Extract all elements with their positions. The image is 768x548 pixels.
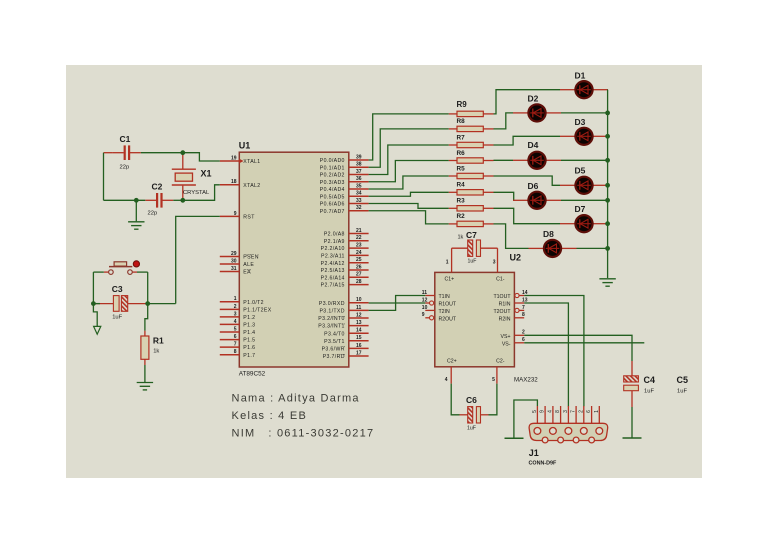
svg-text:C1+: C1+ [445, 276, 455, 282]
wire D8 to bus [577, 247, 608, 249]
svg-text:XTAL1: XTAL1 [243, 159, 260, 165]
capacitor C7 [452, 230, 498, 264]
svg-text:P3.2/INT0: P3.2/INT0 [318, 316, 345, 322]
svg-text:18: 18 [231, 179, 237, 185]
svg-text:P0.1/AD1: P0.1/AD1 [320, 165, 345, 171]
U1 pin 12 (P3.2/tspan tex) [318, 312, 368, 322]
U2 pin 5 [496, 367, 498, 384]
svg-text:P2.3/A11: P2.3/A11 [321, 254, 345, 260]
svg-text:1uF: 1uF [677, 389, 687, 395]
wire C3 left [93, 303, 100, 305]
svg-text:6: 6 [586, 410, 592, 413]
svg-text:22: 22 [356, 235, 362, 241]
svg-text:1: 1 [594, 410, 600, 413]
svg-text:P2.7/A15: P2.7/A15 [321, 283, 345, 289]
svg-text:P0.6/AD6: P0.6/AD6 [320, 202, 345, 208]
capacitor C2 [145, 182, 173, 217]
svg-text:P1.7: P1.7 [243, 353, 255, 359]
U2 pin 14 [515, 290, 528, 298]
J1 pin 6 [586, 406, 592, 423]
U1 pin 3 (P1.2) [220, 311, 256, 321]
svg-text:P3.7/RD: P3.7/RD [323, 354, 345, 360]
wire button left drop [92, 272, 94, 304]
svg-text:P0.3/AD3: P0.3/AD3 [320, 180, 345, 186]
wire C4 top lead [631, 361, 633, 376]
node C2 ground junction [134, 198, 139, 203]
U1 pin 5 (P1.4) [220, 326, 256, 336]
J1 pin 7 [571, 406, 577, 423]
svg-text:P0.5/AD5: P0.5/AD5 [320, 194, 345, 200]
resistor R6 [449, 150, 494, 163]
wire to R1 [145, 304, 148, 331]
svg-text:3: 3 [563, 410, 569, 413]
svg-text:P1.0/T2: P1.0/T2 [243, 300, 264, 306]
svg-text:10: 10 [422, 305, 428, 311]
svg-text:28: 28 [356, 279, 362, 285]
wire C1 left lead ext [104, 152, 113, 154]
U2 pin 12 [422, 297, 434, 305]
svg-text:R1OUT: R1OUT [439, 302, 457, 308]
U1 pin 23 (P2.2/A10) [321, 243, 369, 253]
U1 pin 13 (P3.3/tspan tex) [318, 320, 368, 330]
svg-text:MAX232: MAX232 [514, 377, 538, 384]
node RST junction [145, 301, 150, 306]
svg-text:39: 39 [356, 154, 362, 160]
resistor R9 [449, 100, 494, 117]
U1 pin 18 (XTAL2) [220, 179, 261, 189]
node bus D6 [605, 198, 610, 203]
U1 pin 33 (P0.6/AD6) [320, 198, 369, 208]
U1 pin 2 (P1.1/T2EX) [220, 304, 272, 314]
resistor R3 [449, 198, 494, 211]
U1 pin 19 (XTAL1) [220, 155, 261, 165]
student name text block [232, 393, 375, 440]
svg-text:T2OUT: T2OUT [493, 309, 511, 315]
wire VS+ to C4 [524, 335, 632, 361]
svg-text:T2IN: T2IN [439, 309, 450, 315]
J1 pin 2 [578, 406, 584, 423]
U2 pin 8 [514, 312, 525, 318]
svg-text:34: 34 [356, 191, 362, 197]
svg-text:31: 31 [231, 266, 237, 272]
svg-text:P2.0/A8: P2.0/A8 [324, 232, 345, 238]
terminal arrow (reset net) [94, 326, 101, 334]
wire VS- [524, 342, 644, 344]
wire D3 to bus [607, 135, 609, 137]
svg-text:P2.5/A13: P2.5/A13 [321, 268, 345, 274]
wire R2 to D8 [494, 224, 529, 249]
J1 pin 9 [540, 406, 546, 423]
IC U1 body (AT89C52 microcontroller) [239, 152, 348, 367]
svg-text:AT89C52: AT89C52 [239, 371, 266, 378]
U2 pin 13 [514, 297, 527, 303]
wire D6 to bus [561, 199, 608, 201]
LED D7 [560, 204, 608, 232]
svg-text:21: 21 [356, 228, 362, 234]
svg-text:15: 15 [356, 335, 362, 341]
svg-text:35: 35 [356, 183, 362, 189]
svg-text:R6: R6 [457, 150, 466, 157]
wire C1 to XTAL1 node [141, 152, 183, 154]
svg-text:C2-: C2- [496, 359, 505, 365]
U2 pin 10 [422, 305, 435, 311]
wire D4 to bus [561, 159, 608, 161]
U1 pin 31 (tspan text-dec) [220, 266, 251, 276]
wire D2 to bus [561, 112, 608, 114]
svg-text:C7: C7 [466, 230, 477, 240]
U1 pin 37 (P0.2/AD2) [320, 169, 369, 179]
LED D2 [513, 94, 561, 122]
wire R6 to D4 [494, 159, 514, 161]
svg-text:J1: J1 [529, 448, 539, 458]
svg-text:P3.3/INT1: P3.3/INT1 [318, 324, 345, 330]
wire to C2 [104, 199, 146, 201]
svg-text:VS+: VS+ [501, 334, 511, 340]
svg-text:R9: R9 [457, 100, 468, 109]
svg-text:D7: D7 [575, 204, 586, 214]
svg-text:1uF: 1uF [467, 426, 476, 432]
svg-text:ALE: ALE [243, 262, 254, 268]
node C3 left junction [91, 301, 96, 306]
wire to XTAL2 pin [183, 185, 220, 201]
svg-text:29: 29 [231, 251, 237, 257]
wire D5 to bus [607, 184, 609, 186]
svg-text:D8: D8 [543, 229, 554, 239]
svg-text:9: 9 [540, 410, 546, 413]
LED D1 [560, 71, 608, 99]
svg-text:D1: D1 [575, 71, 586, 81]
U1 pin 9 (RST) [220, 211, 255, 221]
svg-text:22p: 22p [148, 211, 158, 217]
svg-text:P3.4/T0: P3.4/T0 [324, 331, 345, 337]
resistor R8 [449, 118, 494, 131]
svg-text:P3.6/WR: P3.6/WR [322, 347, 345, 353]
resistor R2 [449, 213, 494, 226]
svg-text:2: 2 [234, 304, 237, 310]
wire ground stem [135, 200, 137, 221]
U1 pin 10 (P3.0/RXD) [319, 297, 369, 307]
U1 pin 11 (P3.1/TXD) [320, 305, 369, 315]
resistor R5 [449, 165, 494, 178]
svg-text:P1.5: P1.5 [243, 338, 255, 344]
U1 pin 14 (P3.4/T0) [324, 328, 368, 338]
svg-text:33: 33 [356, 198, 362, 204]
svg-text:8: 8 [234, 349, 237, 355]
svg-text:X1: X1 [201, 169, 212, 179]
U1 pin 36 (P0.3/AD3) [320, 176, 369, 186]
svg-text:C1-: C1- [496, 276, 505, 282]
svg-text:D2: D2 [528, 94, 539, 104]
svg-text:7: 7 [234, 342, 237, 348]
wire pin4 to C6 [451, 384, 459, 415]
U1 pin 22 (P2.1/A9) [324, 235, 369, 245]
svg-text:3: 3 [234, 311, 237, 317]
svg-text:38: 38 [356, 162, 362, 168]
wire R5 to D5 [494, 176, 561, 185]
svg-text:6: 6 [234, 334, 237, 340]
wire R1 to ground [144, 365, 146, 382]
svg-text:XTAL2: XTAL2 [243, 183, 260, 189]
svg-text:D4: D4 [528, 140, 539, 150]
svg-text:C5: C5 [677, 375, 689, 385]
U1 pin 39 (P0.0/AD0) [320, 154, 369, 164]
svg-text:Kelas : 4 EB: Kelas : 4 EB [232, 410, 308, 422]
svg-text:EA: EA [243, 270, 251, 276]
wire R3 to D7 [494, 208, 561, 223]
svg-text:P1.4: P1.4 [243, 330, 255, 336]
wire P0.5 to R4 [369, 192, 449, 196]
svg-text:D6: D6 [528, 181, 539, 191]
U1 pin 21 (P2.0/A8) [324, 228, 369, 238]
wire P0.7 to R2 [369, 211, 449, 224]
U2 pin 11 [422, 290, 435, 296]
U2 pin 9 [422, 312, 434, 320]
wire P3.1/TXD to T1IN [369, 296, 426, 311]
svg-text:P0.7/AD7: P0.7/AD7 [320, 209, 345, 215]
svg-text:25: 25 [356, 257, 362, 263]
U1 pin 8 (P1.7) [220, 349, 256, 359]
U2 pin 6 [514, 337, 525, 343]
connector J1 body (CONN-D9F) [529, 423, 608, 466]
wire RST riser [176, 216, 220, 303]
J1 pin 5 [532, 406, 538, 423]
svg-text:36: 36 [356, 176, 362, 182]
wire C4 bottom lead [631, 391, 633, 407]
svg-text:30: 30 [231, 258, 237, 264]
svg-text:5: 5 [234, 326, 237, 332]
svg-text:16: 16 [356, 343, 362, 349]
svg-text:R1IN: R1IN [499, 302, 511, 308]
svg-text:RST: RST [243, 215, 255, 221]
J1 pin 1 [594, 406, 600, 423]
wire R9 to D1 [494, 90, 561, 114]
LED D4 [513, 140, 561, 169]
svg-text:P1.1/T2EX: P1.1/T2EX [243, 307, 271, 313]
U1 pin 34 (P0.5/AD5) [320, 191, 369, 201]
svg-text:T1IN: T1IN [439, 294, 450, 300]
capacitor C3 [93, 284, 147, 320]
J1 pin 4 [547, 406, 553, 423]
svg-text:P2.2/A10: P2.2/A10 [321, 246, 345, 252]
LED D8 [529, 229, 577, 257]
wire cathode bus vertical [607, 90, 609, 278]
wire button left [93, 271, 103, 273]
wire R8 to D2 [494, 113, 514, 129]
XTAL1 pin arrow [239, 159, 244, 164]
U2 pin 4 [450, 367, 452, 384]
U1 pin 24 (P2.3/A11) [321, 250, 369, 260]
U1 pin 4 (P1.3) [220, 319, 256, 329]
svg-text:D5: D5 [575, 166, 586, 176]
wire D1 to bus [607, 89, 609, 91]
capacitor C1 [113, 134, 141, 171]
svg-text:P3.0/RXD: P3.0/RXD [319, 301, 345, 307]
ground (R1) [137, 383, 153, 390]
ground (J1) [505, 437, 524, 439]
wire C4 to ground [631, 407, 633, 438]
U2 pin 2 [514, 330, 525, 336]
push button (reset) [104, 261, 140, 275]
svg-text:32: 32 [356, 205, 362, 211]
svg-text:P2.4/A12: P2.4/A12 [321, 261, 345, 267]
svg-text:P3.5/T1: P3.5/T1 [324, 339, 345, 345]
wire R7 to D3 [494, 136, 561, 145]
wire T1OUT to J1 pin2 [524, 296, 584, 407]
U1 pin 30 (ALE) [220, 258, 255, 268]
svg-text:C1: C1 [120, 134, 131, 144]
wire left vertical C1-C2 [103, 153, 105, 201]
svg-text:4: 4 [234, 319, 237, 325]
wire P0.3 to R6 [369, 161, 449, 182]
U1 pin 16 (P3.6/tspan tex) [322, 343, 369, 353]
svg-text:P1.2: P1.2 [243, 315, 255, 321]
wire J1 pin5 to ground [514, 400, 538, 438]
svg-text:13: 13 [356, 320, 362, 326]
svg-text:23: 23 [356, 243, 362, 249]
U1 pin 1 (P1.0/T2) [220, 296, 264, 306]
U1 pin 15 (P3.5/T1) [324, 335, 368, 345]
svg-text:24: 24 [356, 250, 362, 256]
svg-text:C2: C2 [152, 182, 163, 192]
U1 pin 6 (P1.5) [220, 334, 256, 344]
schematic sheet background [66, 65, 702, 478]
LED D3 [560, 117, 608, 145]
J1 pin 8 [555, 406, 561, 423]
wire RST net horizontal [148, 303, 176, 305]
LED D5 [560, 166, 608, 194]
J1 pin 3 [563, 406, 569, 423]
svg-text:1: 1 [234, 296, 237, 302]
U1 pin 29 (tspan text-dec) [220, 251, 259, 261]
U1 pin 7 (P1.6) [220, 342, 256, 352]
svg-text:19: 19 [231, 155, 237, 161]
svg-text:R3: R3 [457, 198, 466, 205]
svg-text:P0.2/AD2: P0.2/AD2 [320, 173, 345, 179]
node bus D2 [605, 111, 610, 116]
svg-text:3: 3 [493, 260, 496, 266]
svg-text:5: 5 [492, 377, 495, 383]
svg-text:R4: R4 [457, 182, 466, 189]
svg-text:11: 11 [356, 305, 362, 311]
wire C2 to XTAL2 node [173, 199, 183, 201]
svg-text:R5: R5 [457, 165, 466, 172]
svg-text:P1.3: P1.3 [243, 323, 255, 329]
U2 pin 3 [497, 248, 499, 272]
U1 pin 35 (P0.4/AD4) [320, 183, 369, 193]
resistor R7 [449, 134, 494, 147]
U1 pin 32 (P0.7/AD7) [320, 205, 369, 215]
ground (C4) [623, 437, 642, 439]
ground (LED bus) [599, 279, 615, 286]
svg-text:PSEN: PSEN [243, 255, 259, 261]
svg-text:9: 9 [422, 312, 425, 318]
U1 pin 26 (P2.5/A13) [321, 264, 369, 274]
svg-text:7: 7 [571, 410, 577, 413]
ground (oscillator) [128, 222, 144, 229]
svg-text:4: 4 [547, 410, 553, 413]
wire to arrow terminal [93, 304, 97, 327]
U1 pin 25 (P2.4/A12) [321, 257, 369, 267]
node bus D4 [605, 158, 610, 163]
svg-text:C4: C4 [644, 375, 656, 385]
node XTAL2 junction [180, 198, 185, 203]
wire P0.2 to R7 [369, 145, 449, 175]
svg-text:P0.4/AD4: P0.4/AD4 [320, 187, 345, 193]
svg-text:C6: C6 [466, 395, 477, 405]
svg-text:C3: C3 [112, 284, 123, 294]
wire P0.6 to R3 [369, 204, 449, 209]
svg-text:D3: D3 [575, 117, 586, 127]
U1 pin 28 (P2.7/A15) [321, 279, 369, 289]
svg-text:R2: R2 [457, 213, 466, 220]
wire R4 to D6 [494, 192, 514, 200]
svg-text:P1.6: P1.6 [243, 345, 255, 351]
svg-text:26: 26 [356, 264, 362, 270]
svg-text:5: 5 [532, 410, 538, 413]
svg-text:P0.0/AD0: P0.0/AD0 [320, 158, 345, 164]
node XTAL1 junction [180, 150, 185, 155]
wire P0.0 to R9 [369, 114, 449, 160]
node bus D8 [605, 246, 610, 251]
svg-text:P2.1/A9: P2.1/A9 [324, 239, 345, 245]
svg-text:NIM : 0611-3032-0217: NIM : 0611-3032-0217 [232, 428, 375, 440]
node bus D3 [605, 134, 610, 139]
U1 pin 17 (P3.7/tspan tex) [323, 350, 369, 360]
wire pin5 to C6 [489, 384, 497, 415]
wire to XTAL1 pin [183, 153, 220, 161]
capacitor C6 [460, 395, 489, 432]
svg-text:22p: 22p [120, 165, 130, 171]
wire button right [137, 271, 148, 273]
wire P0.4 to R5 [369, 176, 449, 189]
svg-text:17: 17 [356, 350, 362, 356]
node bus D5 [605, 183, 610, 188]
U1 pin 27 (P2.6/A14) [321, 272, 369, 282]
wire button right drop [147, 272, 149, 304]
svg-text:VS-: VS- [502, 341, 511, 347]
svg-text:14: 14 [356, 328, 362, 334]
svg-text:37: 37 [356, 169, 362, 175]
svg-text:1uF: 1uF [644, 389, 654, 395]
U1 pin 38 (P0.1/AD1) [320, 162, 369, 172]
svg-text:1uF: 1uF [468, 259, 477, 265]
capacitor C5 (labels) [677, 375, 689, 395]
svg-text:U2: U2 [510, 252, 522, 262]
svg-text:8: 8 [555, 410, 561, 413]
svg-text:P3.1/TXD: P3.1/TXD [320, 309, 345, 315]
LED D6 [513, 181, 561, 209]
svg-text:CONN-D9F: CONN-D9F [529, 461, 558, 467]
svg-text:Nama : Aditya Darma: Nama : Aditya Darma [232, 393, 360, 405]
wire P3.0/RXD to R1OUT [369, 302, 426, 304]
svg-text:1k: 1k [153, 349, 159, 355]
svg-text:8: 8 [522, 312, 525, 318]
wire R1IN to J1 pin3 [524, 303, 568, 407]
svg-text:U1: U1 [239, 141, 251, 151]
svg-text:R1: R1 [153, 336, 164, 346]
svg-text:2: 2 [578, 410, 584, 413]
node bus D7 [605, 221, 610, 226]
capacitor C4 [624, 375, 655, 395]
IC U2 body (MAX232) [435, 272, 515, 366]
U2 pin 1 [451, 248, 453, 272]
svg-text:12: 12 [356, 312, 362, 318]
crystal X1 [172, 153, 212, 201]
svg-text:10: 10 [356, 297, 362, 303]
wire P0.1 to R8 [369, 129, 449, 167]
svg-text:R2IN: R2IN [499, 317, 511, 323]
U2 pin 7 [515, 305, 525, 313]
